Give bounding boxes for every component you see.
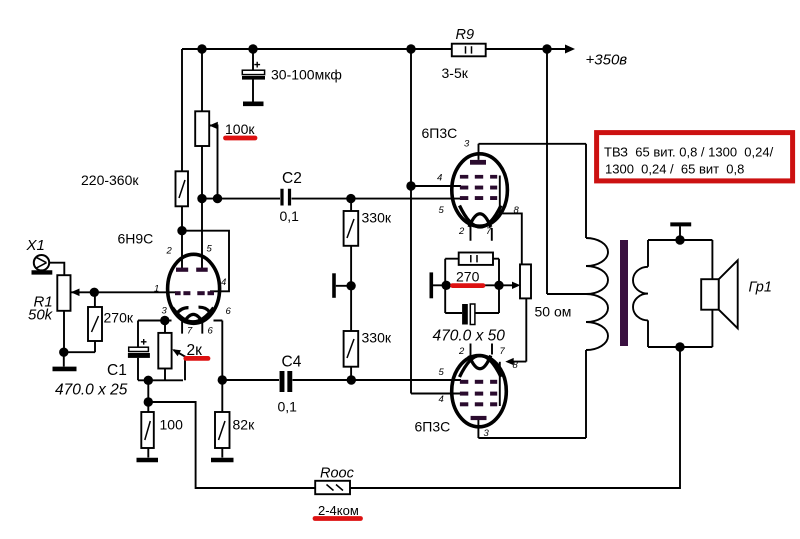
svg-text:330к: 330к (362, 330, 392, 346)
svg-text:470.0 x 50: 470.0 x 50 (433, 328, 506, 345)
svg-text:X1: X1 (26, 237, 45, 254)
svg-text:3-5к: 3-5к (442, 65, 469, 81)
svg-text:С4: С4 (282, 354, 302, 371)
svg-text:82к: 82к (233, 417, 256, 433)
svg-text:ТВЗ 65 вит. 0,8 / 1300 0,24/: ТВЗ 65 вит. 0,8 / 1300 0,24/ (604, 145, 774, 160)
svg-text:2: 2 (458, 226, 465, 237)
svg-text:270: 270 (456, 269, 480, 285)
svg-text:Rooc: Rooc (320, 466, 355, 482)
svg-text:1: 1 (154, 284, 159, 295)
svg-text:50k: 50k (28, 307, 54, 324)
svg-text:4: 4 (437, 173, 442, 184)
svg-text:2к: 2к (187, 342, 203, 359)
svg-text:330к: 330к (362, 210, 392, 226)
svg-text:3: 3 (484, 428, 490, 439)
svg-text:100: 100 (160, 417, 184, 433)
svg-text:Гр1: Гр1 (749, 280, 772, 296)
svg-text:6: 6 (226, 306, 232, 317)
svg-text:+350в: +350в (586, 52, 628, 69)
svg-text:6Н9С: 6Н9С (118, 231, 154, 247)
svg-text:3: 3 (464, 139, 470, 150)
svg-text:50 ом: 50 ом (535, 304, 572, 320)
svg-text:С2: С2 (282, 170, 302, 187)
svg-text:2-4ком: 2-4ком (318, 503, 359, 518)
svg-text:0,1: 0,1 (280, 208, 300, 224)
svg-text:7: 7 (486, 226, 492, 237)
svg-text:7: 7 (187, 326, 193, 337)
svg-text:5: 5 (207, 244, 213, 255)
svg-text:7: 7 (500, 346, 506, 357)
svg-text:2: 2 (166, 246, 173, 257)
svg-text:270к: 270к (104, 310, 134, 326)
svg-text:220-360к: 220-360к (81, 172, 139, 188)
svg-text:1300 0,24 / 65 вит 0,8: 1300 0,24 / 65 вит 0,8 (605, 162, 744, 177)
svg-text:8: 8 (514, 205, 520, 216)
svg-text:100к: 100к (225, 121, 255, 137)
svg-text:4: 4 (221, 277, 226, 288)
svg-text:0,1: 0,1 (278, 399, 298, 415)
svg-text:4: 4 (439, 394, 444, 405)
svg-text:6: 6 (208, 326, 214, 337)
svg-text:2: 2 (458, 346, 465, 357)
svg-text:3: 3 (162, 306, 168, 317)
svg-text:30-100мкф: 30-100мкф (271, 67, 342, 83)
svg-text:6П3С: 6П3С (415, 419, 451, 435)
svg-text:R9: R9 (456, 27, 475, 43)
svg-text:5: 5 (439, 367, 445, 378)
svg-text:6П3С: 6П3С (422, 125, 458, 141)
svg-text:8: 8 (513, 360, 519, 371)
svg-text:5: 5 (439, 205, 445, 216)
svg-text:470.0 x 25: 470.0 x 25 (55, 382, 128, 399)
svg-text:С1: С1 (107, 362, 127, 379)
